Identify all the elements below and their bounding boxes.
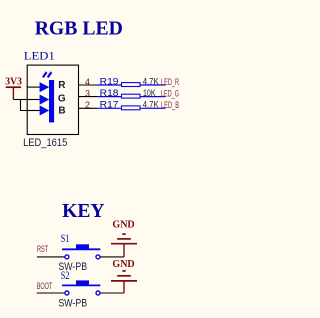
svg-text:KEY: KEY	[62, 200, 105, 222]
svg-text:10K: 10K	[143, 88, 156, 99]
svg-text:4: 4	[85, 77, 90, 87]
svg-text:LED_G: LED_G	[161, 88, 179, 98]
svg-text:LED_B: LED_B	[161, 100, 179, 110]
svg-text:3V3: 3V3	[5, 77, 22, 88]
svg-text:GND: GND	[112, 220, 135, 231]
svg-text:SW-PB: SW-PB	[58, 297, 87, 309]
svg-text:RGB LED: RGB LED	[35, 18, 123, 40]
svg-text:RST: RST	[37, 244, 49, 254]
svg-text:LED_R: LED_R	[161, 77, 179, 87]
svg-text:S2: S2	[61, 270, 70, 282]
svg-text:2: 2	[85, 100, 90, 110]
svg-text:R: R	[58, 80, 66, 91]
svg-text:4.7K: 4.7K	[143, 76, 160, 87]
svg-text:G: G	[58, 93, 66, 104]
svg-text:LED1: LED1	[24, 49, 55, 63]
svg-text:BOOT: BOOT	[37, 281, 53, 291]
svg-text:4.7K: 4.7K	[143, 100, 160, 111]
svg-text:S1: S1	[61, 233, 70, 245]
svg-text:R18: R18	[100, 88, 119, 98]
svg-text:R19: R19	[100, 76, 119, 86]
svg-text:3: 3	[85, 88, 90, 98]
svg-text:B: B	[58, 105, 65, 116]
svg-text:R17: R17	[100, 100, 119, 110]
svg-text:LED_1615: LED_1615	[23, 137, 67, 149]
svg-text:GND: GND	[112, 259, 135, 270]
